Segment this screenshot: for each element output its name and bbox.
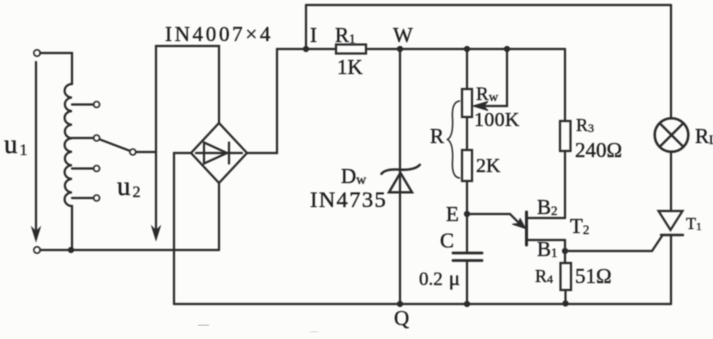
- svg-text:T2: T2: [570, 214, 589, 238]
- svg-text:RL: RL: [695, 124, 713, 148]
- wire: [156, 46, 219, 152]
- svg-text:B2: B2: [537, 195, 558, 219]
- wiper arrow: [473, 46, 510, 111]
- wire: [466, 261, 468, 305]
- node Q: [397, 301, 403, 307]
- svg-text:51Ω: 51Ω: [575, 264, 612, 288]
- node I: [303, 5, 309, 52]
- junction C bottom: [464, 301, 470, 307]
- wire: [174, 153, 191, 304]
- svg-text:u1: u1: [4, 129, 28, 159]
- svg-text:u2: u2: [117, 171, 141, 201]
- lamp RL: [655, 5, 689, 211]
- svg-text:IN4007×4: IN4007×4: [165, 22, 273, 46]
- svg-text:E: E: [446, 202, 459, 226]
- node W: [397, 46, 403, 52]
- svg-text:C: C: [440, 229, 454, 253]
- resistor R4: [561, 251, 572, 307]
- wire bottom rail: [174, 303, 671, 305]
- svg-text:R4: R4: [535, 266, 553, 286]
- svg-text:I: I: [310, 23, 317, 47]
- tap 3: [72, 166, 100, 172]
- wire: [40, 53, 72, 84]
- terminal bottom-left: [34, 247, 40, 253]
- svg-text:R3: R3: [576, 115, 594, 135]
- svg-text:Q: Q: [394, 306, 409, 330]
- wire: [564, 49, 566, 121]
- svg-text:IN4735: IN4735: [310, 187, 387, 212]
- thyristor T1: [659, 211, 684, 304]
- svg-text:240Ω: 240Ω: [575, 138, 622, 162]
- svg-text:W: W: [393, 23, 413, 47]
- resistor R1: [336, 45, 366, 54]
- svg-text:Rw: Rw: [476, 84, 499, 105]
- brace for R: [448, 101, 460, 178]
- capacitor C: [453, 253, 482, 261]
- svg-text:1K: 1K: [337, 55, 363, 79]
- u2 arrow: [152, 152, 160, 240]
- wire: [564, 151, 566, 218]
- wire: [71, 206, 73, 250]
- node B1 junction: [562, 248, 568, 254]
- wire top rail: [306, 4, 671, 6]
- wire: [40, 249, 219, 251]
- svg-text:Dw: Dw: [341, 164, 367, 188]
- junction Rw top: [464, 46, 470, 52]
- wire: [136, 151, 156, 153]
- resistor R3: [560, 121, 571, 151]
- potentiometer Rw: [462, 49, 472, 117]
- svg-text:0.2μ: 0.2μ: [419, 266, 460, 290]
- tap 2: [72, 135, 100, 141]
- tap 1: [72, 102, 100, 108]
- svg-text:T1: T1: [686, 214, 702, 233]
- wire: [399, 49, 401, 304]
- transistor T2 (UJT): [467, 212, 565, 251]
- svg-text:R: R: [430, 124, 444, 148]
- junction: [68, 247, 74, 253]
- wire: [466, 117, 468, 150]
- svg-text:100K: 100K: [474, 109, 520, 131]
- wire: [366, 48, 565, 50]
- smudge: [310, 330, 318, 333]
- zener diode Dw: [382, 165, 420, 193]
- node E: [464, 211, 470, 217]
- switch blade: [100, 140, 136, 156]
- bridge rectifier: [191, 123, 247, 183]
- wire: [218, 183, 220, 250]
- u1 arrow: [32, 62, 40, 241]
- wire gate: [565, 236, 662, 251]
- transformer winding: [65, 84, 72, 206]
- svg-text:R1: R1: [335, 23, 356, 47]
- svg-text:2K: 2K: [476, 155, 501, 177]
- resistor 2K: [462, 150, 472, 181]
- terminal top-left: [34, 50, 40, 56]
- wire: [247, 49, 336, 153]
- wire: [466, 181, 468, 253]
- smudge: [198, 324, 209, 327]
- tap 4: [72, 195, 100, 201]
